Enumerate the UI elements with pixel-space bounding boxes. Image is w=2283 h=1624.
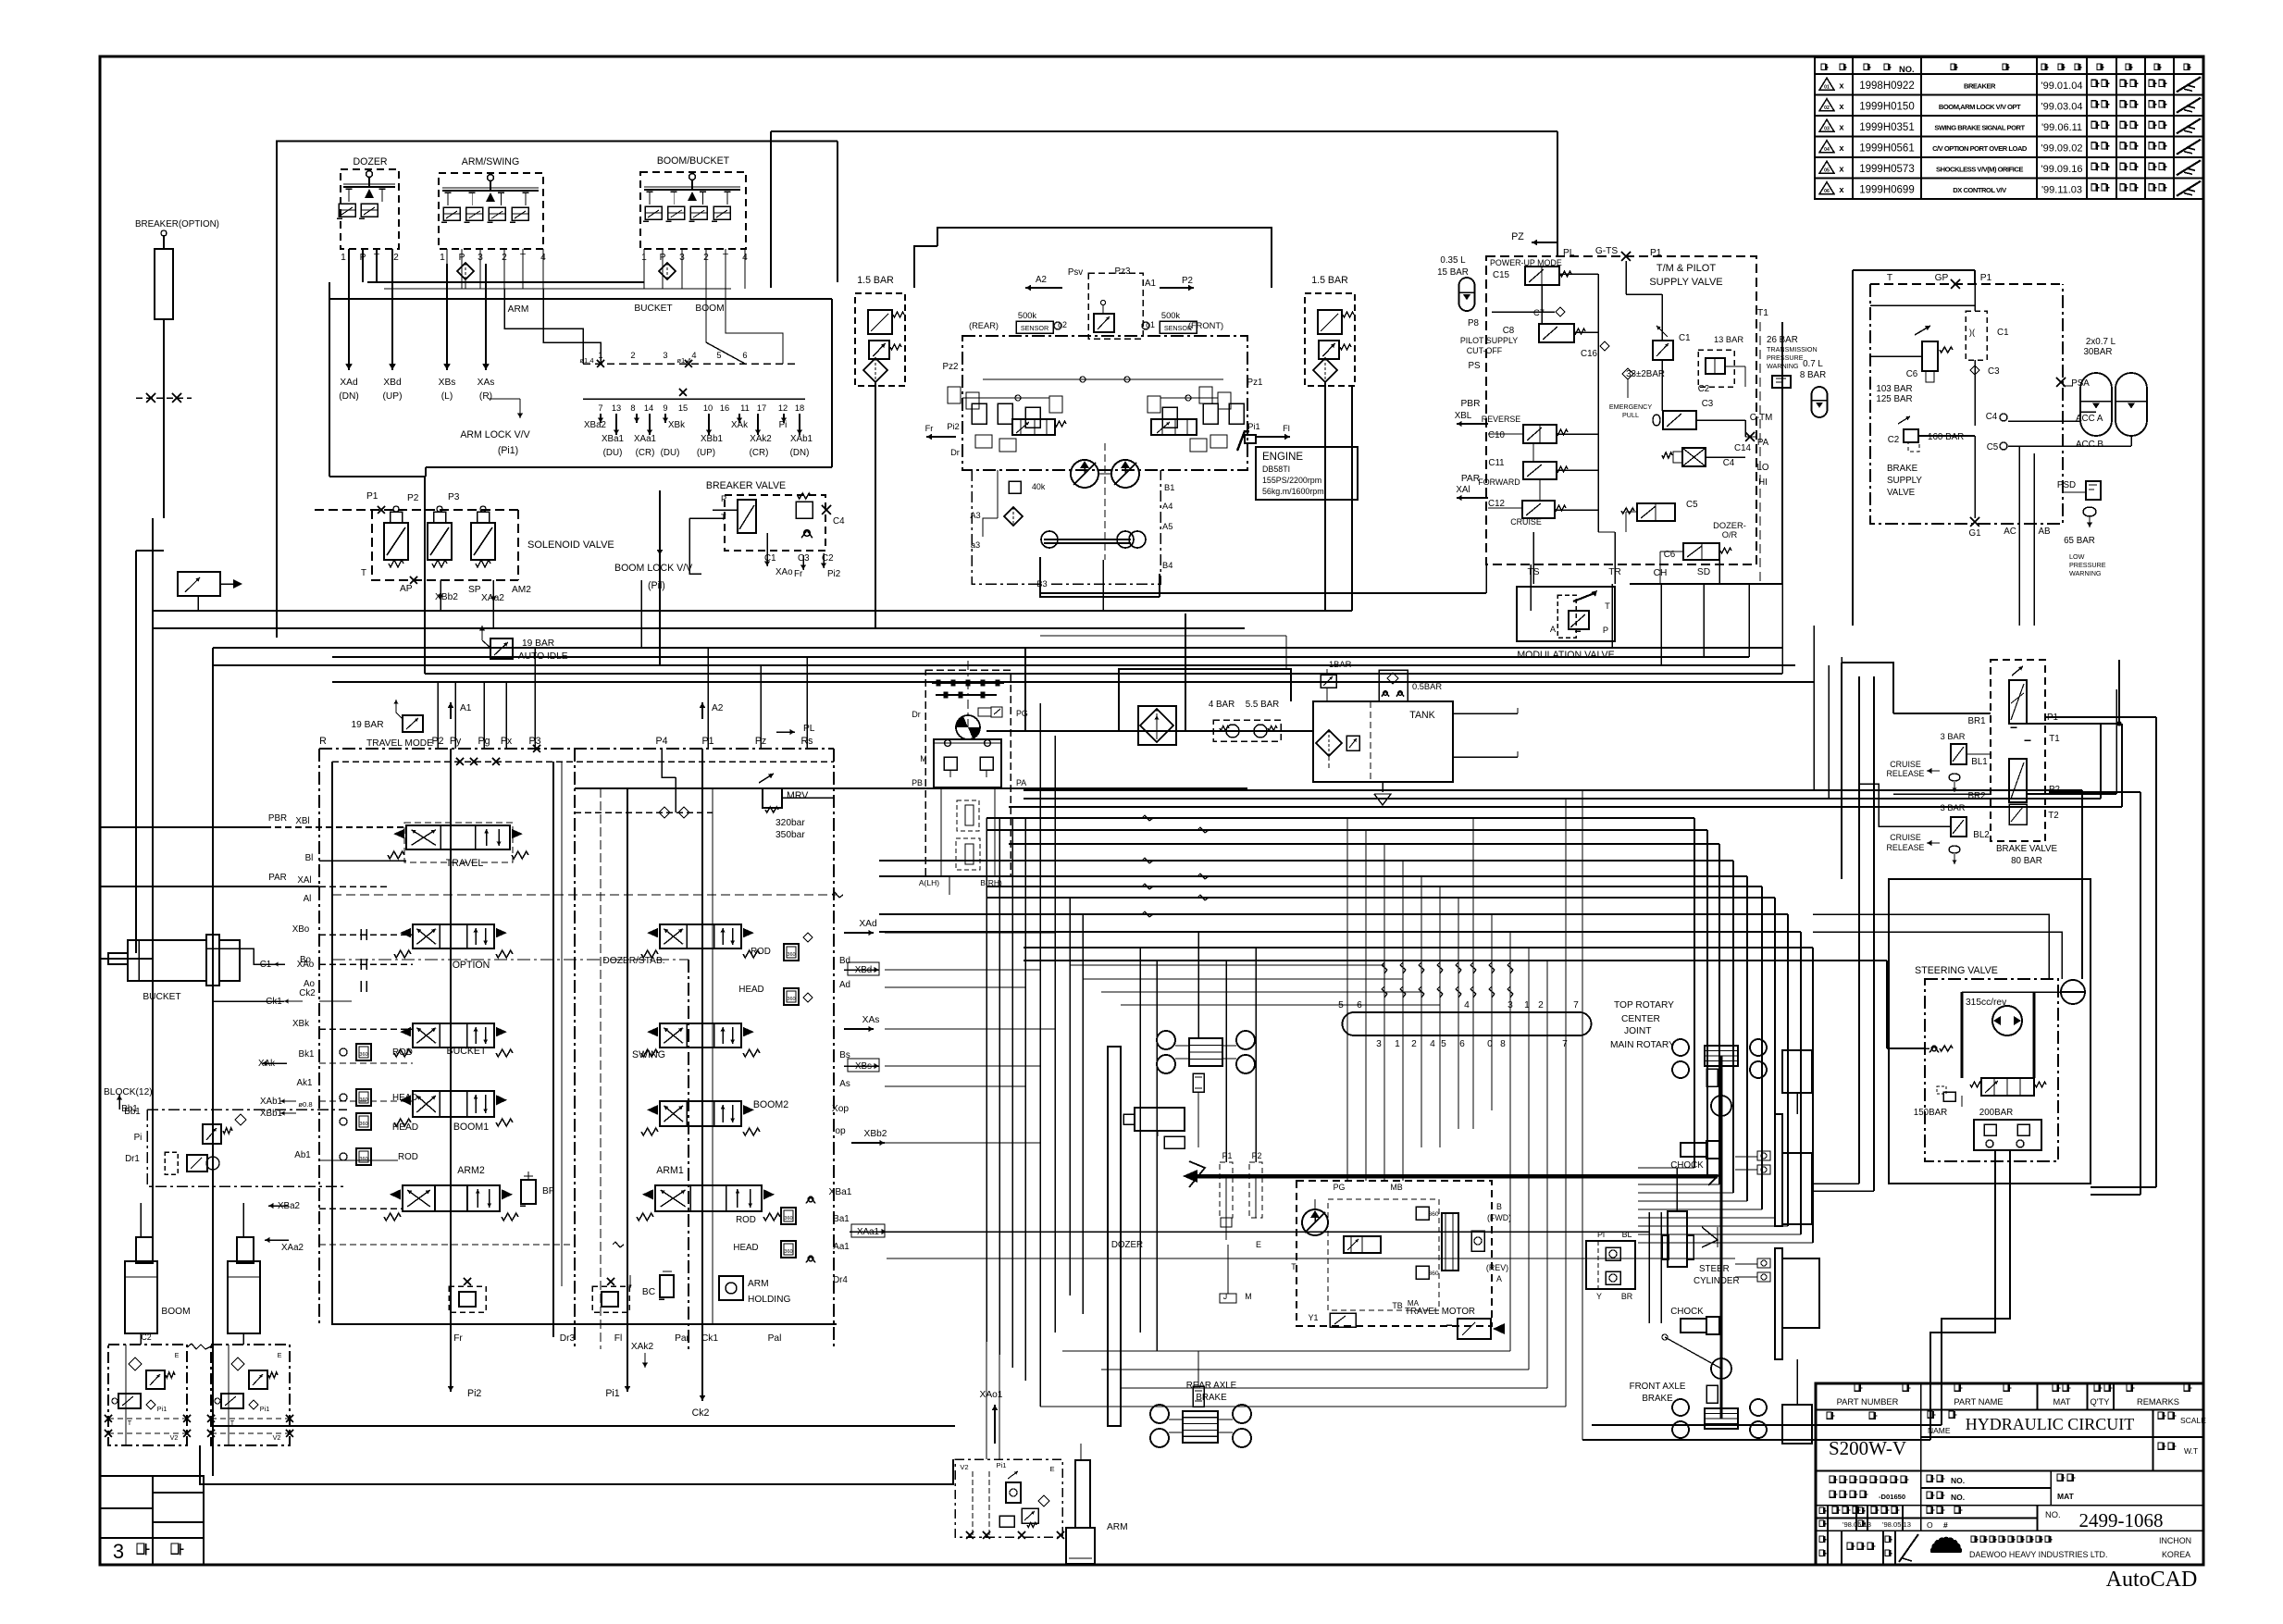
svg-text:FORWARD: FORWARD [1478,477,1520,487]
svg-text:C16: C16 [1581,349,1598,359]
svg-text:PRESSURE: PRESSURE [1767,353,1804,362]
svg-text:XAl: XAl [297,875,311,886]
svg-text:1998H0922: 1998H0922 [1859,81,1914,92]
svg-text:C1: C1 [1679,333,1691,343]
svg-text:A5: A5 [1162,522,1173,531]
svg-text:AB: AB [2038,527,2051,537]
svg-text:10: 10 [703,403,713,413]
svg-text:T2: T2 [2048,811,2058,821]
svg-text:B4: B4 [1162,561,1173,570]
svg-text:8: 8 [1500,1039,1506,1049]
svg-text:Pi1: Pi1 [997,1461,1007,1469]
svg-text:ROD: ROD [736,1215,756,1225]
svg-text:'99.01.04: '99.01.04 [2041,81,2083,92]
svg-text:A1: A1 [1145,279,1156,289]
svg-text:01: 01 [1824,84,1830,90]
svg-text:P2: P2 [1182,276,1193,286]
svg-text:ARM/SWING: ARM/SWING [462,156,519,167]
svg-text:P: P [721,494,726,503]
svg-text:MRV: MRV [787,790,809,801]
svg-text:200BAR: 200BAR [1979,1108,2014,1118]
svg-text:P1: P1 [366,491,378,502]
svg-text:2x0.7 L: 2x0.7 L [2086,337,2116,347]
svg-text:1BAR: 1BAR [1329,660,1352,669]
svg-text:BOOM LOCK V/V: BOOM LOCK V/V [614,563,693,574]
svg-text:CHOCK: CHOCK [1670,1160,1704,1171]
svg-text:XAd: XAd [859,919,877,929]
svg-text:CENTER: CENTER [1621,1014,1660,1024]
svg-text:TANK: TANK [1409,710,1434,721]
svg-text:360: 360 [1428,1271,1439,1277]
svg-text:360: 360 [787,997,795,1002]
svg-text:op: op [835,1126,846,1136]
svg-text:ACC B: ACC B [2076,440,2103,450]
svg-text:-D01650: -D01650 [1879,1493,1905,1501]
svg-text:'99.09.02: '99.09.02 [2041,143,2083,154]
svg-text:PB: PB [912,778,923,787]
svg-text:7: 7 [1573,1000,1579,1010]
svg-text:02: 02 [1824,105,1830,111]
svg-text:TRANSMISSION: TRANSMISSION [1767,345,1818,353]
svg-text:PS: PS [1468,361,1481,371]
svg-text:ARM: ARM [1107,1522,1128,1532]
svg-text:M: M [1245,1292,1251,1301]
svg-text:ROD: ROD [392,1048,413,1058]
svg-text:7: 7 [1562,1039,1568,1049]
svg-text:V2: V2 [960,1463,968,1471]
svg-text:1999H0561: 1999H0561 [1859,143,1914,154]
svg-text:BUCKET: BUCKET [634,304,672,314]
svg-text:125 BAR: 125 BAR [1876,394,1912,404]
svg-text:BOOM2: BOOM2 [753,1099,788,1110]
svg-text:1: 1 [1395,1039,1400,1049]
svg-text:14: 14 [644,403,653,413]
svg-text:CRUISE: CRUISE [1890,760,1921,769]
svg-text:Ck2: Ck2 [692,1407,710,1419]
svg-text:C15: C15 [1493,270,1510,280]
svg-text:Ba1: Ba1 [833,1214,849,1224]
svg-text:C-TM: C-TM [1750,413,1772,423]
svg-text:XBl: XBl [295,816,309,826]
svg-text:PBR: PBR [268,813,287,824]
svg-text:C2: C2 [1888,435,1900,445]
svg-text:NO.: NO. [1951,1493,1965,1502]
svg-text:155PS/2200rpm: 155PS/2200rpm [1262,476,1321,485]
svg-text:C2: C2 [141,1333,151,1342]
svg-text:BLOCK(12): BLOCK(12) [104,1087,153,1097]
svg-text:360: 360 [784,1216,792,1221]
svg-text:8: 8 [630,403,635,413]
svg-text:Dr: Dr [912,710,920,719]
svg-text:1999H0351: 1999H0351 [1859,122,1914,133]
svg-text:4 BAR: 4 BAR [1209,700,1235,710]
svg-text:6: 6 [1459,1039,1465,1049]
svg-text:SHOCKLESS V/V(M) ORIFICE: SHOCKLESS V/V(M) ORIFICE [1936,165,2023,173]
svg-text:G-TS: G-TS [1595,246,1619,256]
svg-text:C5: C5 [1987,442,1999,452]
svg-text:350bar: 350bar [775,830,805,840]
svg-text:XAb1: XAb1 [790,434,813,444]
svg-text:P4: P4 [656,736,668,747]
svg-text:XAk2: XAk2 [631,1342,654,1352]
svg-text:BOOM,ARM LOCK V/V OPT: BOOM,ARM LOCK V/V OPT [1939,103,2021,111]
svg-text:1.5 BAR: 1.5 BAR [857,275,894,286]
svg-text:XAd: XAd [340,378,358,388]
svg-text:PL: PL [803,724,815,734]
svg-text:M: M [920,754,926,763]
svg-text:x: x [1839,81,1844,90]
svg-text:2499-1068: 2499-1068 [2079,1509,2164,1531]
svg-text:Pi: Pi [779,420,788,430]
svg-text:VALVE: VALVE [1887,488,1916,498]
svg-text:ROD: ROD [751,947,771,957]
svg-text:360: 360 [359,1157,367,1162]
svg-text:0.5BAR: 0.5BAR [1412,682,1442,691]
svg-text:(FRONT): (FRONT) [1188,321,1223,330]
svg-text:(REV): (REV) [1486,1263,1508,1272]
svg-text:40k: 40k [1032,482,1046,491]
svg-text:SWING BRAKE SIGNAL PORT: SWING BRAKE SIGNAL PORT [1934,123,2025,131]
svg-text:A: A [1496,1274,1502,1283]
svg-text:Pz2: Pz2 [943,362,959,372]
svg-text:C/V OPTION PORT OVER LOAD: C/V OPTION PORT OVER LOAD [1932,144,2028,153]
svg-text:PZ: PZ [1511,231,1524,242]
svg-text:BOOM1: BOOM1 [453,1122,489,1133]
svg-text:E: E [278,1351,282,1359]
svg-text:SD: SD [1697,567,1710,577]
svg-text:G1: G1 [1968,528,1980,539]
svg-text:WARNING: WARNING [2069,569,2102,577]
svg-text:Y: Y [1596,1292,1602,1301]
svg-text:BL2: BL2 [1973,830,1989,840]
svg-text:(CR): (CR) [750,448,769,458]
svg-text:BREAKER VALVE: BREAKER VALVE [706,480,786,491]
svg-text:DOZER: DOZER [353,156,387,167]
svg-text:SENSOR: SENSOR [1021,324,1048,332]
svg-text:ARM: ARM [508,304,529,315]
svg-text:NO.: NO. [2045,1510,2061,1519]
svg-text:Fr: Fr [453,1333,463,1344]
svg-text:TRAVEL MODE: TRAVEL MODE [366,738,433,749]
svg-text:o2: o2 [1058,320,1067,329]
svg-text:(REAR): (REAR) [969,321,999,330]
svg-text:Q'TY: Q'TY [2091,1397,2110,1407]
svg-text:x: x [1839,185,1844,194]
svg-text:(Pi1): (Pi1) [498,445,518,456]
svg-text:30BAR: 30BAR [2083,347,2112,357]
svg-text:B: B [1496,1202,1502,1211]
svg-text:Fl: Fl [614,1333,623,1344]
svg-text:C10: C10 [1488,430,1506,440]
svg-text:3 BAR: 3 BAR [1941,803,1966,812]
svg-text:CYLINDER: CYLINDER [1694,1276,1740,1286]
svg-text:PILOT SUPPLY: PILOT SUPPLY [1460,336,1518,345]
svg-text:2: 2 [1411,1039,1417,1049]
svg-text:A2: A2 [1036,275,1047,285]
svg-text:Al: Al [304,894,312,904]
svg-text:'98.05.13: '98.05.13 [1843,1520,1871,1529]
svg-text:B1: B1 [1164,483,1174,492]
svg-text:DX CONTROL V/V: DX CONTROL V/V [1953,186,2007,194]
svg-text:A2: A2 [712,703,724,713]
svg-text:P1: P1 [1222,1151,1233,1160]
svg-text:O: O [1927,1520,1933,1530]
svg-text:P3: P3 [448,492,460,502]
svg-text:5: 5 [1441,1039,1446,1049]
svg-text:#: # [1943,1520,1948,1530]
svg-text:(DU): (DU) [603,448,623,458]
svg-text:PBR: PBR [1461,399,1481,409]
svg-text:Fr: Fr [794,569,803,579]
svg-text:P2: P2 [1252,1151,1262,1160]
svg-text:o1: o1 [1146,320,1155,329]
svg-text:TRAVEL MOTOR: TRAVEL MOTOR [1405,1307,1475,1317]
svg-text:4: 4 [1430,1039,1435,1049]
svg-text:A1: A1 [460,703,472,713]
svg-text:ARM LOCK V/V: ARM LOCK V/V [460,429,530,440]
svg-text:320bar: 320bar [775,818,805,828]
svg-text:Bd: Bd [839,956,850,966]
svg-text:LOW: LOW [2069,552,2085,561]
svg-text:13 BAR: 13 BAR [1714,335,1743,344]
svg-text:XAa1: XAa1 [857,1227,879,1237]
svg-text:REMARKS: REMARKS [2137,1397,2179,1407]
svg-text:Y1: Y1 [1309,1313,1319,1322]
svg-text:BC: BC [642,1287,655,1297]
svg-text:360: 360 [359,1122,367,1127]
svg-text:T: T [1291,1262,1297,1271]
svg-text:19 BAR: 19 BAR [351,720,383,730]
svg-text:5.5 BAR: 5.5 BAR [1246,700,1280,710]
svg-text:360: 360 [787,952,795,958]
svg-text:12: 12 [778,403,788,413]
svg-text:Ad: Ad [839,980,850,990]
svg-text:XAs: XAs [478,378,495,388]
svg-text:BR1: BR1 [1967,716,1985,726]
svg-text:BR: BR [1621,1292,1632,1301]
svg-text:T: T [1887,273,1892,283]
svg-text:XAa2: XAa2 [281,1243,304,1253]
svg-text:360: 360 [784,1249,792,1255]
svg-text:As: As [839,1079,850,1089]
svg-text:Xop: Xop [832,1104,849,1114]
svg-text:AutoCAD: AutoCAD [2106,1568,2198,1592]
svg-text:HEAD: HEAD [733,1243,758,1253]
svg-text:Aa1: Aa1 [833,1242,849,1252]
svg-text:ø1.4: ø1.4 [579,356,593,365]
svg-text:TOP ROTARY: TOP ROTARY [1614,1000,1674,1010]
svg-text:2: 2 [630,351,635,360]
svg-text:R: R [319,736,327,747]
svg-text:Dr: Dr [950,448,960,457]
svg-text:XAs: XAs [862,1015,880,1025]
svg-text:DOZER-: DOZER- [1713,521,1746,530]
svg-text:7: 7 [598,403,602,413]
svg-text:BUCKET: BUCKET [143,992,180,1002]
svg-text:CRUISE: CRUISE [1510,517,1542,527]
svg-text:NO.: NO. [1951,1476,1965,1485]
svg-text:'99.11.03: '99.11.03 [2041,184,2082,195]
svg-text:C1: C1 [1997,328,2009,338]
svg-text:E: E [1256,1240,1261,1249]
svg-text:(DN): (DN) [339,391,359,402]
svg-text:Bl: Bl [305,853,314,863]
svg-text:C2: C2 [822,553,834,564]
svg-text:4: 4 [1464,1000,1470,1010]
svg-text:P: P [1603,626,1608,635]
svg-text:0.35 L: 0.35 L [1440,255,1466,266]
svg-text:65 BAR: 65 BAR [2064,536,2095,546]
svg-text:KOREA: KOREA [2162,1550,2190,1559]
svg-text:Dr3: Dr3 [560,1333,576,1344]
svg-text:3: 3 [1376,1039,1382,1049]
svg-text:x: x [1839,122,1844,131]
svg-text:x: x [1839,164,1844,173]
svg-text:XAo: XAo [775,567,793,577]
svg-text:150BAR: 150BAR [1914,1108,1948,1118]
svg-text:STEER: STEER [1699,1264,1730,1274]
svg-text:C7: C7 [1533,308,1545,317]
svg-text:16: 16 [720,403,729,413]
svg-text:C6: C6 [1906,369,1918,379]
svg-text:03: 03 [1824,126,1830,131]
svg-text:HYDRAULIC CIRCUIT: HYDRAULIC CIRCUIT [1966,1415,2135,1433]
svg-text:BL1: BL1 [1971,757,1987,767]
svg-text:NO.: NO. [1899,65,1915,74]
svg-text:Dr4: Dr4 [833,1275,848,1285]
svg-text:FRONT AXLE: FRONT AXLE [1630,1382,1686,1392]
svg-text:Dr1: Dr1 [125,1154,140,1164]
svg-text:ARM: ARM [748,1279,769,1289]
svg-text:Psv: Psv [1068,267,1083,278]
svg-text:XBs: XBs [855,1061,872,1072]
svg-text:6: 6 [742,351,747,360]
svg-text:XAl: XAl [1456,485,1470,495]
svg-text:AM2: AM2 [512,585,531,595]
svg-text:4: 4 [691,351,696,360]
svg-text:Ck2: Ck2 [299,988,315,998]
svg-text:2: 2 [1538,1000,1544,1010]
svg-text:T1: T1 [1757,308,1768,318]
svg-text:Pz3: Pz3 [1115,267,1131,277]
svg-text:AC: AC [2004,527,2016,537]
svg-text:PA: PA [1016,778,1026,787]
svg-text:BR2: BR2 [1967,791,1985,801]
svg-text:T: T [128,1419,132,1427]
svg-text:Bb1: Bb1 [124,1107,140,1117]
svg-text:O/R: O/R [1722,530,1738,539]
svg-text:Pi2: Pi2 [467,1388,481,1399]
svg-text:x: x [1839,143,1844,153]
svg-text:A(LH): A(LH) [919,878,939,887]
svg-text:(FWD): (FWD) [1487,1213,1511,1222]
svg-text:SOLENOID VALVE: SOLENOID VALVE [527,539,614,551]
svg-text:(Pil): (Pil) [648,580,665,591]
svg-text:3: 3 [663,351,667,360]
svg-text:1999H0573: 1999H0573 [1859,164,1914,175]
svg-text:CRUISE: CRUISE [1890,833,1921,842]
svg-text:56kg.m/1600rpm: 56kg.m/1600rpm [1262,487,1324,496]
svg-text:BRAKE: BRAKE [1642,1394,1673,1404]
svg-text:160 BAR: 160 BAR [1928,432,1964,442]
svg-text:MAT: MAT [2057,1492,2075,1501]
svg-text:360: 360 [359,1097,367,1103]
svg-text:500k: 500k [1018,311,1037,320]
svg-text:A4: A4 [1162,502,1173,511]
svg-text:PART NUMBER: PART NUMBER [1837,1397,1899,1407]
svg-text:'99.09.16: '99.09.16 [2041,164,2083,175]
svg-text:13: 13 [612,403,621,413]
svg-text:P2: P2 [407,493,419,503]
svg-text:PAR: PAR [1461,474,1480,484]
svg-text:GP: GP [1935,273,1949,283]
svg-text:04: 04 [1824,147,1830,153]
svg-text:2: 2 [393,253,399,263]
svg-text:17: 17 [757,403,766,413]
svg-text:XAa1: XAa1 [634,434,656,444]
svg-text:1: 1 [440,253,445,263]
svg-text:T: T [361,568,366,578]
svg-text:MAT: MAT [2053,1397,2071,1407]
svg-text:Pal: Pal [768,1333,782,1344]
svg-text:EMERGENCY: EMERGENCY [1609,403,1653,411]
svg-text:V2: V2 [273,1433,281,1442]
svg-text:MODULATION VALVE: MODULATION VALVE [1517,650,1614,661]
svg-text:315cc/rev: 315cc/rev [1966,998,2007,1008]
svg-text:C14: C14 [1734,443,1752,453]
svg-text:DOZER/STAB.: DOZER/STAB. [602,956,664,966]
svg-text:15: 15 [678,403,688,413]
svg-text:C3: C3 [798,553,810,564]
svg-text:HEAD: HEAD [738,985,763,995]
svg-text:500k: 500k [1161,311,1181,320]
svg-text:XBb2: XBb2 [864,1129,887,1139]
svg-text:1999H0699: 1999H0699 [1859,184,1914,195]
svg-text:80 BAR: 80 BAR [2011,856,2042,866]
svg-text:SUPPLY: SUPPLY [1887,476,1922,486]
svg-text:DAEWOO HEAVY INDUSTRIES LTD.: DAEWOO HEAVY INDUSTRIES LTD. [1969,1550,2107,1559]
svg-text:HOLDING: HOLDING [748,1295,790,1305]
svg-text:MAIN ROTARY: MAIN ROTARY [1610,1040,1675,1050]
svg-text:XAk2: XAk2 [750,434,771,444]
svg-text:C3: C3 [1702,399,1714,409]
svg-text:Ak1: Ak1 [297,1078,313,1088]
svg-text:W.T: W.T [2184,1446,2198,1456]
svg-text:RELEASE: RELEASE [1887,843,1925,852]
svg-text:XAk: XAk [731,420,748,430]
svg-text:05: 05 [1824,167,1830,173]
svg-text:Par: Par [675,1333,689,1344]
svg-text:SP: SP [468,585,481,595]
svg-text:x: x [1839,102,1844,111]
svg-text:33±2BAR: 33±2BAR [1626,369,1665,379]
svg-text:PRESSURE: PRESSURE [2069,561,2106,569]
svg-text:XBb1: XBb1 [701,434,723,444]
svg-text:T1: T1 [2049,734,2059,744]
svg-text:BOOM: BOOM [695,304,724,314]
svg-text:XBa1: XBa1 [829,1187,852,1197]
svg-text:PAR: PAR [268,873,286,883]
svg-text:(DU): (DU) [661,448,680,458]
svg-text:A: A [1550,625,1557,634]
svg-text:XBd: XBd [855,965,873,975]
svg-text:Pi1: Pi1 [605,1388,619,1399]
svg-text:OPTION: OPTION [453,960,490,971]
svg-text:ø0.8: ø0.8 [298,1100,312,1109]
svg-text:(L): (L) [441,391,453,402]
svg-text:MA: MA [1408,1299,1420,1308]
svg-text:BREAKER(OPTION): BREAKER(OPTION) [135,219,219,229]
